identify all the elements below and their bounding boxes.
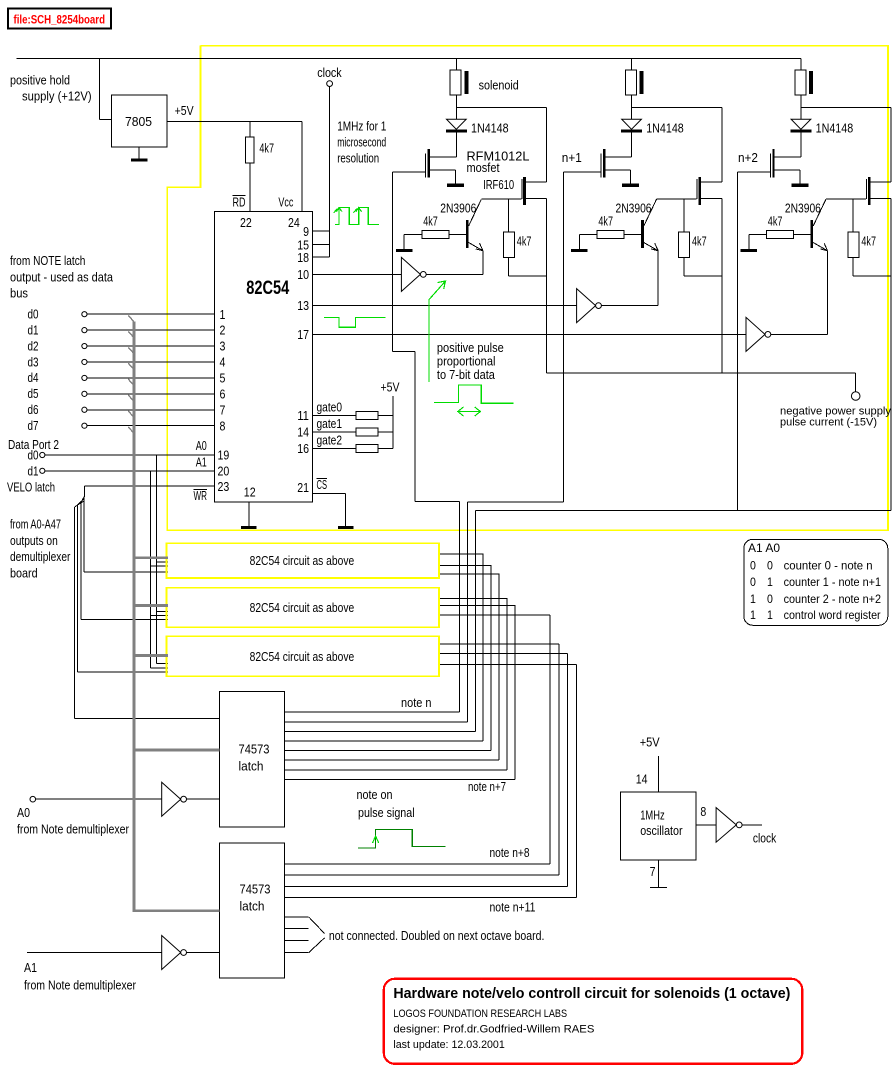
svg-text:not connected. Doubled on next: not connected. Doubled on next octave bo… — [329, 929, 545, 943]
svg-text:last update: 12.03.2001: last update: 12.03.2001 — [393, 1039, 504, 1051]
svg-text:12: 12 — [244, 486, 256, 500]
svg-text:4k7: 4k7 — [598, 215, 613, 229]
svg-text:11: 11 — [297, 409, 309, 423]
svg-text:7: 7 — [220, 403, 226, 417]
svg-text:control word register: control word register — [784, 608, 881, 622]
svg-text:d1: d1 — [28, 465, 39, 479]
svg-text:demultiplexer: demultiplexer — [10, 550, 70, 564]
svg-text:clock: clock — [317, 66, 342, 80]
svg-text:n+2: n+2 — [738, 151, 758, 165]
svg-text:RD: RD — [233, 196, 246, 210]
svg-text:d0: d0 — [28, 308, 39, 322]
svg-text:22: 22 — [240, 216, 252, 230]
svg-text:from A0-A47: from A0-A47 — [10, 518, 61, 532]
svg-text:4k7: 4k7 — [259, 142, 274, 156]
svg-text:8: 8 — [220, 419, 226, 433]
svg-text:13: 13 — [297, 299, 309, 313]
svg-text:74573: 74573 — [240, 883, 271, 897]
svg-text:from Note demultiplexer: from Note demultiplexer — [17, 823, 129, 837]
svg-text:1N4148: 1N4148 — [471, 122, 509, 136]
svg-text:2N3906: 2N3906 — [616, 201, 652, 215]
svg-text:bus: bus — [10, 287, 28, 301]
svg-text:2N3906: 2N3906 — [785, 201, 821, 215]
svg-text:n+1: n+1 — [562, 151, 582, 165]
svg-text:latch: latch — [239, 760, 264, 774]
svg-text:3: 3 — [220, 340, 226, 354]
svg-text:1: 1 — [750, 608, 756, 622]
svg-text:note n+7: note n+7 — [468, 780, 506, 794]
svg-text:note n+11: note n+11 — [490, 901, 536, 915]
svg-text:21: 21 — [297, 481, 309, 495]
svg-text:IRF610: IRF610 — [483, 178, 514, 192]
svg-text:counter 2 - note n+2: counter 2 - note n+2 — [784, 592, 882, 606]
svg-text:0: 0 — [750, 575, 756, 589]
svg-text:1: 1 — [767, 575, 773, 589]
svg-text:A1: A1 — [24, 961, 37, 975]
svg-text:supply (+12V): supply (+12V) — [22, 90, 92, 104]
svg-text:note on: note on — [357, 788, 393, 802]
svg-text:board: board — [10, 567, 38, 581]
svg-text:16: 16 — [297, 442, 309, 456]
svg-text:CS: CS — [317, 478, 328, 492]
svg-text:microsecond: microsecond — [337, 136, 386, 150]
svg-text:82C54 circuit as above: 82C54 circuit as above — [250, 650, 355, 664]
svg-text:d5: d5 — [28, 387, 39, 401]
svg-text:d2: d2 — [28, 339, 39, 353]
svg-text:5: 5 — [220, 372, 226, 386]
svg-text:mosfet: mosfet — [467, 161, 500, 175]
svg-text:0: 0 — [767, 592, 773, 606]
svg-text:24: 24 — [288, 216, 300, 230]
svg-text:0: 0 — [750, 558, 756, 572]
svg-text:note n+8: note n+8 — [490, 846, 530, 860]
svg-text:1N4148: 1N4148 — [646, 122, 684, 136]
svg-text:gate2: gate2 — [317, 433, 343, 447]
svg-text:A1 A0: A1 A0 — [748, 541, 780, 555]
svg-text:d1: d1 — [28, 323, 39, 337]
svg-text:4k7: 4k7 — [692, 235, 707, 249]
svg-text:from NOTE latch: from NOTE latch — [10, 254, 85, 268]
svg-text:17: 17 — [297, 328, 309, 342]
svg-text:positive pulse: positive pulse — [437, 341, 504, 355]
svg-text:outputs on: outputs on — [10, 534, 58, 548]
svg-text:counter 0 - note n: counter 0 - note n — [784, 558, 873, 572]
svg-text:counter 1 - note n+1: counter 1 - note n+1 — [784, 575, 882, 589]
svg-text:file:SCH_8254board: file:SCH_8254board — [14, 15, 106, 27]
svg-text:designer: Prof.dr.Godfried-Wil: designer: Prof.dr.Godfried-Willem RAES — [393, 1024, 594, 1036]
svg-text:d6: d6 — [28, 403, 39, 417]
svg-text:positive hold: positive hold — [10, 74, 70, 88]
svg-text:4k7: 4k7 — [517, 235, 532, 249]
svg-text:1: 1 — [750, 592, 756, 606]
svg-text:note n: note n — [401, 696, 432, 710]
svg-text:82C54 circuit as above: 82C54 circuit as above — [250, 554, 355, 568]
svg-text:LOGOS FOUNDATION RESEARCH LABS: LOGOS FOUNDATION RESEARCH LABS — [393, 1008, 567, 1020]
svg-text:10: 10 — [297, 268, 309, 282]
svg-text:Vcc: Vcc — [278, 196, 293, 210]
svg-text:4k7: 4k7 — [861, 235, 876, 249]
svg-text:0: 0 — [767, 558, 773, 572]
svg-text:7: 7 — [650, 865, 656, 879]
svg-text:2: 2 — [220, 324, 226, 338]
svg-text:4: 4 — [220, 356, 226, 370]
svg-text:1: 1 — [220, 308, 226, 322]
svg-text:oscillator: oscillator — [640, 824, 682, 838]
svg-text:d4: d4 — [28, 371, 39, 385]
svg-text:WR: WR — [194, 489, 208, 503]
svg-text:+5V: +5V — [381, 381, 401, 395]
svg-text:19: 19 — [218, 449, 230, 463]
svg-text:20: 20 — [218, 465, 230, 479]
svg-text:8: 8 — [700, 805, 706, 819]
svg-text:d0: d0 — [28, 449, 39, 463]
svg-text:VELO latch: VELO latch — [7, 481, 55, 495]
svg-text:14: 14 — [297, 425, 309, 439]
svg-text:pulse signal: pulse signal — [358, 806, 415, 820]
svg-text:14: 14 — [636, 773, 648, 787]
svg-text:1MHz for 1: 1MHz for 1 — [337, 120, 386, 134]
svg-text:Hardware note/velo controll ci: Hardware note/velo controll circuit for … — [393, 985, 790, 1002]
svg-text:1MHz: 1MHz — [640, 808, 665, 822]
svg-text:18: 18 — [297, 251, 309, 265]
svg-text:9: 9 — [303, 225, 309, 239]
svg-text:A0: A0 — [17, 806, 30, 820]
svg-text:A0: A0 — [196, 439, 207, 453]
svg-text:gate0: gate0 — [317, 401, 343, 415]
svg-text:4k7: 4k7 — [423, 215, 438, 229]
svg-text:6: 6 — [220, 387, 226, 401]
svg-text:from Note demultiplexer: from Note demultiplexer — [24, 979, 136, 993]
svg-text:82C54 circuit as above: 82C54 circuit as above — [250, 601, 355, 615]
svg-text:2N3906: 2N3906 — [440, 201, 476, 215]
svg-text:to 7-bit data: to 7-bit data — [437, 368, 495, 382]
svg-text:+5V: +5V — [175, 104, 195, 118]
svg-text:7805: 7805 — [125, 114, 152, 129]
svg-text:proportional: proportional — [437, 355, 496, 369]
svg-text:output - used as data: output - used as data — [10, 271, 113, 285]
svg-text:solenoid: solenoid — [479, 79, 519, 93]
svg-text:1: 1 — [767, 608, 773, 622]
svg-text:4k7: 4k7 — [768, 215, 783, 229]
svg-text:+5V: +5V — [640, 736, 661, 750]
svg-text:clock: clock — [753, 832, 777, 846]
svg-text:pulse current (-15V): pulse current (-15V) — [780, 417, 877, 429]
svg-text:resolution: resolution — [337, 152, 379, 166]
svg-text:A1: A1 — [196, 456, 207, 470]
svg-text:latch: latch — [240, 900, 265, 914]
svg-text:1N4148: 1N4148 — [816, 122, 854, 136]
svg-text:23: 23 — [218, 480, 230, 494]
svg-text:d7: d7 — [28, 419, 39, 433]
svg-text:d3: d3 — [28, 355, 39, 369]
svg-text:gate1: gate1 — [317, 417, 343, 431]
svg-text:74573: 74573 — [239, 743, 270, 757]
svg-text:82C54: 82C54 — [246, 278, 289, 299]
